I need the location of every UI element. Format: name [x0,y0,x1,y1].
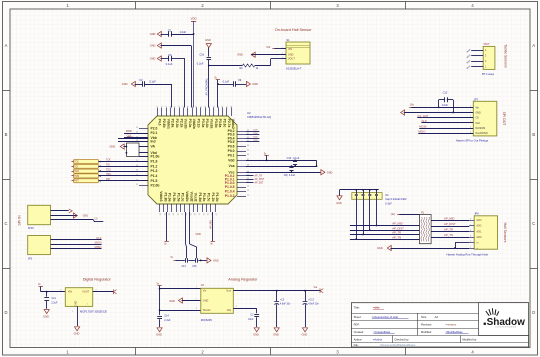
svg-text:P1.9a: P1.9a [168,193,172,202]
svg-text:MOSI: MOSI [95,241,102,245]
svg-text:=Author: =Author [373,338,383,342]
svg-text:10: 10 [196,106,198,108]
svg-text:18: 18 [231,106,233,108]
svg-text:Modified by:: Modified by: [462,338,477,342]
svg-text:AP_PROXIMAL: AP_PROXIMAL [206,78,209,96]
svg-text:P1.8b: P1.8b [163,193,167,202]
svg-text:SCK: SCK [253,137,258,139]
svg-text:MOSI: MOSI [419,124,426,128]
svg-text:0.1uF: 0.1uF [223,80,230,84]
svg-text:P2.0b: P2.0b [151,184,160,188]
svg-text:C16: C16 [199,53,204,57]
svg-text:3: 3 [196,308,197,310]
svg-text:31: 31 [180,213,182,215]
svg-text:P2.6b: P2.6b [162,119,166,128]
svg-text:MCP1703T-3302E/CB: MCP1703T-3302E/CB [80,309,107,313]
svg-text:Vddo2: Vddo2 [231,119,235,129]
svg-text:P1.8: P1.8 [151,160,158,164]
svg-text:Vccl2: Vccl2 [194,193,198,202]
svg-text:GND: GND [302,333,308,337]
svg-text:P1.8c: P1.8c [202,193,206,202]
svg-text:Shutdn: Shutdn [203,309,211,312]
svg-text:13: 13 [209,106,211,108]
svg-text:Created:: Created: [354,330,365,334]
svg-text:P4.0: P4.0 [158,119,162,126]
svg-text:P1.5b: P1.5b [172,193,176,202]
svg-text:27: 27 [197,213,199,215]
svg-text:AP_MID: AP_MID [444,217,454,221]
svg-text:AP_MID: AP_MID [392,222,402,226]
svg-text:3: 3 [470,116,471,118]
svg-text:Vdd: Vdd [228,159,234,163]
svg-text:JP10: JP10 [28,226,34,230]
svg-text:28: 28 [193,213,195,215]
svg-text:1.0uF: 1.0uF [180,30,187,34]
svg-text:Harwin SPI to Out Pinlugs: Harwin SPI to Out Pinlugs [456,138,489,142]
svg-text:P1.2: P1.2 [151,164,158,168]
svg-text:P1.4: P1.4 [151,174,158,178]
svg-text:GND: GND [273,333,279,337]
svg-text:GND: GND [150,32,156,36]
svg-text:GND: GND [237,53,243,57]
svg-text:AP_DIST: AP_DIST [255,178,265,181]
svg-text:GND: GND [110,145,116,149]
svg-text:GND: GND [122,82,128,86]
svg-text:23: 23 [215,213,217,215]
svg-text:33: 33 [172,213,174,215]
svg-text:3v3: 3v3 [266,46,271,49]
svg-text:10uF: 10uF [248,319,254,321]
svg-text:TMS: TMS [74,176,79,178]
svg-text:35: 35 [163,213,165,215]
svg-text:P2.8a: P2.8a [171,119,175,128]
svg-text:2.2uF: 2.2uF [164,319,171,322]
svg-text:Vout: Vout [226,290,231,293]
svg-text:C11: C11 [52,297,57,300]
svg-text:SCK: SCK [253,133,258,135]
svg-text:P1.0.4: P1.0.4 [225,190,235,194]
svg-text:A1302ELH-T: A1302ELH-T [286,66,302,70]
svg-text:A4: A4 [435,315,439,319]
svg-text:C10 ; 0.1uF: C10 ; 0.1uF [287,157,300,160]
svg-text:SCK: SCK [253,140,258,142]
svg-text:1: 1 [282,47,283,49]
svg-text:C4: C4 [385,193,389,197]
svg-text:1: 1 [72,311,73,313]
svg-text:TDO: TDO [74,171,79,173]
svg-text:A: A [5,43,8,48]
svg-text:1: 1 [196,287,197,289]
svg-text:1: 1 [470,106,471,108]
svg-text:GND: GND [150,44,156,48]
svg-text:SPI IN: SPI IN [18,215,22,226]
svg-text:6: 6 [470,132,471,134]
svg-text:A0/0: A0/0 [476,236,482,239]
svg-text:P0.0: P0.0 [228,149,235,153]
svg-text:Tackle Sensors: Tackle Sensors [504,44,508,68]
svg-text:GND: GND [169,299,175,303]
svg-text:SCK: SCK [253,129,258,131]
svg-text:P1.0.5: P1.0.5 [225,185,235,189]
svg-text:BT 4 ways: BT 4 ways [482,72,495,76]
svg-text:TACT: TACT [483,42,490,46]
svg-text:0.1uF: 0.1uF [166,62,173,66]
svg-text:Sheet:: Sheet: [354,315,362,319]
svg-text:P2.6c: P2.6c [223,119,227,128]
svg-text:3: 3 [282,57,283,59]
svg-text:A0/1: A0/1 [476,231,482,234]
svg-text:VA: VA [201,283,205,287]
svg-text:RST: RST [74,181,79,183]
svg-text:C6: C6 [168,53,172,57]
svg-text:P0.1: P0.1 [228,154,235,158]
svg-text:C5: C5 [168,29,172,33]
svg-text:2: 2 [196,298,197,300]
svg-text:=DocumentFullPathAndName: =DocumentFullPathAndName [380,343,416,347]
svg-text:P2.0: P2.0 [151,127,158,131]
svg-text:P2.1: P2.1 [151,131,158,135]
svg-text:CS: CS [94,218,98,220]
svg-text:Vddo1: Vddo1 [166,119,170,129]
svg-text:(3v): (3v) [410,103,414,106]
svg-text:AP_TN: AP_TN [444,233,453,237]
svg-text:JP7: JP7 [474,97,479,101]
svg-text:C8 | 0.1uF: C8 | 0.1uF [284,174,296,177]
svg-text:1: 1 [157,106,159,107]
svg-text:Vssd2: Vssd2 [189,192,193,202]
svg-text:Ctlp: Ctlp [227,309,232,312]
svg-text:3: 3 [60,289,61,291]
svg-text:3: 3 [470,236,471,238]
svg-text:GND: GND [74,332,80,336]
svg-text:File:: File: [354,343,359,347]
svg-text:2: 2 [162,106,164,107]
svg-text:Revision:: Revision: [421,323,432,327]
svg-text:17: 17 [226,106,228,108]
svg-text:AP_DIST: AP_DIST [444,222,456,226]
svg-text:Vss3b: Vss3b [184,119,188,129]
svg-text:Cap 0.3uFalt 0402: Cap 0.3uFalt 0402 [385,197,407,201]
svg-text:2: 2 [470,111,471,113]
svg-text:GND: GND [75,301,78,307]
svg-text:JP2: JP2 [28,256,33,260]
svg-text:AP_TR: AP_TR [255,175,263,178]
svg-text:Vss2a: Vss2a [210,119,214,129]
svg-text:5: 5 [470,224,471,226]
svg-text:8: 8 [188,106,190,107]
svg-text:2: 2 [96,289,97,291]
svg-text:Vdd2a: Vdd2a [192,119,196,129]
svg-text:(3v): (3v) [391,213,395,216]
svg-text:PDF:: PDF: [354,323,360,327]
svg-text:P1.5: P1.5 [151,179,158,183]
svg-text:GND: GND [253,333,259,337]
svg-text:1.0uF: 1.0uF [442,104,449,107]
svg-text:CS_OUT: CS_OUT [417,114,429,118]
svg-text:MISO: MISO [418,130,426,134]
svg-text:Hall Sensors: Hall Sensors [503,223,507,243]
svg-text:On-board Hall Sensor: On-board Hall Sensor [275,28,312,32]
svg-text:JP6: JP6 [474,211,479,215]
svg-text:P3.0a: P3.0a [188,119,192,128]
svg-text:55: 55 [247,195,249,197]
svg-text:Dout/SOSO: Dout/SOSO [476,132,488,135]
svg-text:C: C [532,221,535,226]
svg-text:GND: GND [336,202,342,205]
svg-text:32: 32 [136,184,138,186]
svg-text:4.9uF 10v: 4.9uF 10v [308,304,319,306]
svg-text:11: 11 [201,106,203,108]
svg-text:A: A [532,43,535,48]
svg-text:2: 2 [470,241,471,243]
svg-text:CLK: CLK [96,236,101,240]
svg-text:GND: GND [150,57,156,61]
svg-text:Ind: Ind [151,139,156,143]
svg-text:GND: GND [205,38,211,42]
svg-text:Modified:: Modified: [421,330,432,334]
svg-text:TDI: TDI [106,165,110,167]
svg-text:P3.5b: P3.5b [214,119,218,128]
svg-text:6: 6 [470,219,471,221]
svg-text:44: 44 [247,145,249,147]
svg-text:GND: GND [156,333,162,337]
svg-text:15: 15 [218,106,220,108]
svg-text:P2.2a: P2.2a [179,119,183,128]
svg-text:C12: C12 [443,90,448,94]
svg-text:25: 25 [206,213,208,215]
svg-text:AP_SET: AP_SET [255,182,265,185]
svg-text:P1.0b: P1.0b [151,155,160,159]
svg-text:CS: CS [476,118,480,120]
svg-text:VDD: VDD [195,232,201,236]
svg-text:16: 16 [222,106,224,108]
svg-text:P1.0.3: P1.0.3 [225,194,235,198]
svg-text:0.3uF: 0.3uF [385,201,392,205]
svg-text:2: 2 [87,303,88,305]
svg-text:AP_TN: AP_TN [392,235,401,239]
svg-text:r o b o t c o m p a n y: r o b o t c o m p a n y [495,326,517,329]
svg-text:P1.3c: P1.3c [181,193,185,202]
svg-text:MIC5205: MIC5205 [201,318,212,322]
svg-text:P1.0b: P1.0b [215,193,219,202]
svg-text:Checked by:: Checked by: [394,338,409,342]
svg-text:D: D [4,310,7,315]
svg-text:+C13: +C13 [308,299,314,301]
svg-text:P3.3a: P3.3a [201,119,205,128]
svg-text:Author:: Author: [354,338,363,342]
svg-text:TCK: TCK [106,160,111,162]
svg-text:GND: GND [203,299,209,302]
svg-text:P0.6: P0.6 [228,145,235,149]
svg-text:Analog Regulator: Analog Regulator [228,277,258,281]
svg-text:=title: =title [373,306,380,310]
svg-text:P1.3: P1.3 [151,169,158,173]
svg-text:VIN: VIN [68,291,72,294]
svg-text:GND: GND [288,54,294,57]
svg-text:2.2uF: 2.2uF [51,301,58,304]
svg-text:CLK: CLK [421,119,427,123]
svg-text:P1.2b: P1.2b [211,193,215,202]
svg-text:TMS: TMS [106,174,111,176]
svg-text:VDD: VDD [191,17,197,21]
svg-text:12: 12 [205,106,207,108]
svg-text:A0/2: A0/2 [476,225,482,228]
svg-text:B: B [532,132,535,137]
svg-text:C15: C15 [192,266,197,268]
svg-text:AP_TR: AP_TR [392,231,401,235]
svg-text:5: 5 [470,127,471,129]
svg-text:14: 14 [213,106,215,108]
svg-text:VOUT: VOUT [288,58,295,61]
svg-text:P2.3b: P2.3b [175,119,179,128]
svg-text:4: 4 [236,306,237,308]
svg-text:4: 4 [470,230,471,232]
svg-text:C13: C13 [182,266,187,268]
svg-text:Title:: Title: [354,306,360,310]
svg-text:6: 6 [179,106,181,107]
svg-text:53: 53 [247,186,249,188]
svg-text:AP_TR: AP_TR [444,228,453,232]
svg-text:P0.5: P0.5 [228,140,235,144]
svg-text:C14: C14 [164,315,169,318]
svg-text:+C3: +C3 [280,299,285,301]
svg-text:GND: GND [377,246,383,250]
svg-text:Harwin Analog Port Through Hol: Harwin Analog Port Through Hole [447,253,489,257]
svg-text:4: 4 [470,121,471,123]
svg-text:AP_DIST: AP_DIST [392,226,404,230]
svg-text:MISO: MISO [95,245,102,249]
svg-text:TDO: TDO [106,169,111,171]
svg-text:1: 1 [470,247,471,249]
svg-text:Size:: Size: [421,315,427,319]
svg-text:TCK: TCK [74,162,79,164]
svg-text:Vddo3: Vddo3 [159,191,163,201]
svg-text:GND: GND [476,112,481,114]
svg-text:P3.1b: P3.1b [197,119,201,128]
svg-text:36: 36 [159,213,161,215]
svg-text:U2: U2 [247,111,251,115]
svg-text:P1.5a: P1.5a [176,193,180,202]
svg-text:P3.4b: P3.4b [205,119,209,128]
svg-text:26: 26 [202,213,204,215]
svg-text:Vca: Vca [229,164,235,168]
svg-text:P3.6a: P3.6a [218,119,222,128]
svg-text:Din/SOSI: Din/SOSI [476,128,486,130]
svg-text:=revision: =revision [445,323,456,327]
svg-text:Vdd2b: Vdd2b [185,191,189,201]
svg-text:P1.5c: P1.5c [207,193,211,202]
svg-text:C2: C2 [139,78,143,82]
svg-text:GND: GND [83,215,89,218]
svg-text:GND: GND [213,259,219,263]
svg-text:46: 46 [247,154,249,156]
svg-text:Vin: Vin [203,290,207,293]
svg-text:VA: VA [151,145,156,149]
svg-text:45: 45 [247,150,249,152]
svg-text:32: 32 [176,213,178,215]
svg-text:SPI OUT: SPI OUT [502,112,506,127]
svg-text:D: D [532,310,535,315]
svg-text:P1.8d: P1.8d [198,193,202,202]
svg-text:AP_MID: AP_MID [210,220,213,229]
svg-text:2: 2 [282,53,283,55]
svg-text:Digital Regulator: Digital Regulator [83,277,112,281]
svg-text:MOSI: MOSI [126,131,132,133]
svg-text:C8051F061LTD-GQ: C8051F061LTD-GQ [247,115,271,119]
svg-text:0.1uF: 0.1uF [149,80,156,84]
svg-text:GND: GND [327,170,333,174]
svg-text:20: 20 [136,127,138,129]
svg-text:34: 34 [167,213,169,215]
svg-text:4.9uF 10v: 4.9uF 10v [280,304,291,306]
svg-text:5: 5 [175,106,177,107]
svg-text:54: 54 [247,190,249,192]
svg-text:0.2uF: 0.2uF [197,62,204,66]
svg-text:A0/3: A0/3 [476,219,482,222]
svg-text:GND: GND [43,315,49,319]
svg-text:C: C [4,221,7,226]
svg-text:GND: GND [252,82,258,86]
svg-text:CLK: CLK [476,123,481,125]
svg-text:VOUT: VOUT [82,291,89,294]
svg-text:B: B [5,132,8,137]
svg-text:3: 3 [166,106,168,107]
svg-text:RST: RST [106,179,111,181]
svg-text:P2.7a: P2.7a [227,119,231,128]
svg-text:VIN: VIN [288,48,292,51]
svg-text:C9: C9 [238,78,242,82]
svg-text:TDI: TDI [74,166,78,168]
